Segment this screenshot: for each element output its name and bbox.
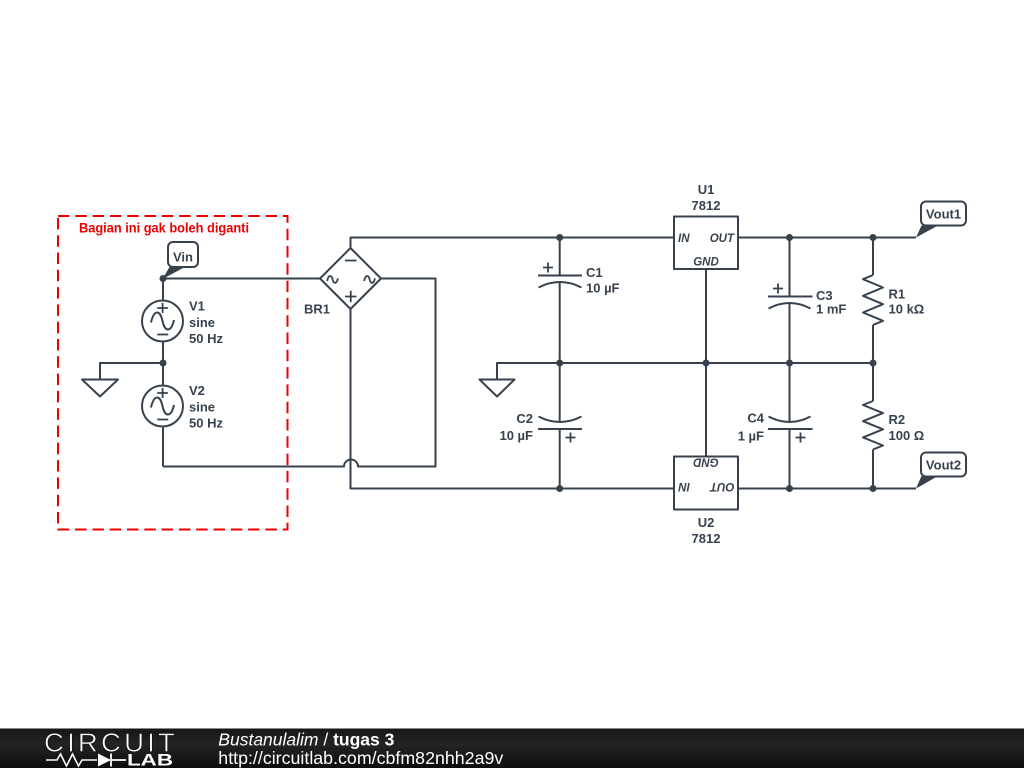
svg-text:10 µF: 10 µF [499,428,533,443]
svg-text:C1: C1 [586,265,603,280]
junction V1-V2 ground [160,360,167,367]
wire V2 to BR1 right AC return with hop [163,279,436,467]
wire U2 GND lead [705,363,707,457]
wire C3 bottom lead [789,304,791,364]
svg-text:IN: IN [678,233,690,245]
svg-text:50 Hz: 50 Hz [189,331,223,346]
svg-text:http://circuitlab.com/cbfm82nh: http://circuitlab.com/cbfm82nhh2a9v [218,748,503,768]
junction C1-C2 mid [556,360,563,367]
ground symbol mid [480,380,515,397]
wire left ground stub [100,363,163,380]
svg-text:Vout1: Vout1 [926,207,961,222]
wire C4 top lead [789,363,791,422]
ground symbol left [82,380,118,397]
svg-text:U1: U1 [698,182,715,197]
svg-text:1 mF: 1 mF [816,302,846,317]
svg-text:R1: R1 [889,287,906,302]
svg-text:OUT: OUT [710,233,735,245]
wire R2 top lead [872,363,874,401]
svg-text:V1: V1 [189,299,205,314]
logo resistor-diode glyph [46,754,97,766]
svg-text:OUT: OUT [709,480,734,492]
svg-text:Bagian ini gak boleh diganti: Bagian ini gak boleh diganti [79,220,249,236]
svg-text:7812: 7812 [692,531,721,546]
svg-text:Bustanulalim / tugas 3: Bustanulalim / tugas 3 [218,730,394,750]
wire C1 bottom lead [559,283,561,364]
junction C3-C4 mid [786,360,793,367]
junction R1-R2 mid [870,360,877,367]
wire BR1 minus to U1 IN (top rail) [351,238,675,249]
wire R1 top lead [872,238,874,276]
capacitor C3 [768,284,846,317]
wire U1 OUT to Vout1 [738,237,916,239]
regulator U1 [674,182,738,269]
junction R1 top [870,234,877,241]
svg-text:10 kΩ: 10 kΩ [889,302,925,317]
wire V2 bottom lead [162,427,164,467]
voltage source V2 [142,383,223,431]
wire Vin to BR1 left (AC) [163,278,320,280]
wire C2 top lead [559,363,561,422]
wire U2 OUT to Vout2 [738,488,916,490]
wire BR1 plus to U2 IN (bottom rail) [351,309,675,489]
capacitor C2 [499,411,582,443]
wire R1 bottom lead [872,325,874,363]
resistor R1 [863,275,924,325]
svg-text:sine: sine [189,400,215,415]
node Vout2 flag [916,453,966,489]
node Vout1 flag [916,202,966,238]
capacitor C4 [738,411,813,444]
wire ground rail [497,363,873,380]
regulator U2 (flipped) [674,456,738,547]
resistor R2 [863,401,924,450]
junction C1 top [556,234,563,241]
wire V1-V2 link [162,342,164,386]
wire C4 bottom lead [789,430,791,489]
wire C2 bottom lead [559,429,561,489]
svg-text:sine: sine [189,315,215,330]
svg-text:Vin: Vin [173,250,193,265]
svg-text:C4: C4 [747,411,764,426]
junction U1-U2 GND mid [703,360,710,367]
voltage source V1 [142,299,223,347]
wire C1 top lead [559,238,561,276]
svg-text:7812: 7812 [692,198,721,213]
svg-text:Vout2: Vout2 [926,458,961,473]
svg-text:50 Hz: 50 Hz [189,416,223,431]
svg-text:C2: C2 [516,411,533,426]
junction C2 bottom [556,485,563,492]
svg-text:GND: GND [693,257,719,269]
footer bar [0,729,1024,768]
bridge rectifier BR1 [304,248,381,317]
svg-text:IN: IN [678,480,690,492]
svg-text:GND: GND [693,456,719,468]
capacitor C1 [538,263,620,296]
svg-text:U2: U2 [698,515,715,530]
svg-text:R2: R2 [889,412,906,427]
node Vin flag [163,242,199,279]
wire C3 top lead [789,238,791,297]
svg-text:1 µF: 1 µF [738,429,764,444]
junction C4 bottom [786,485,793,492]
wire R2 bottom lead [872,450,874,489]
svg-text:10 µF: 10 µF [586,281,620,296]
svg-text:V2: V2 [189,383,205,398]
svg-text:BR1: BR1 [304,302,330,317]
svg-text:100 Ω: 100 Ω [889,428,925,443]
svg-text:LAB: LAB [127,751,173,768]
wire U1 GND lead [705,269,707,363]
junction Vin node [160,275,167,282]
red annotation box [58,216,288,530]
junction R2 bottom [870,485,877,492]
junction C3 top [786,234,793,241]
wire V1 top lead [162,279,164,301]
